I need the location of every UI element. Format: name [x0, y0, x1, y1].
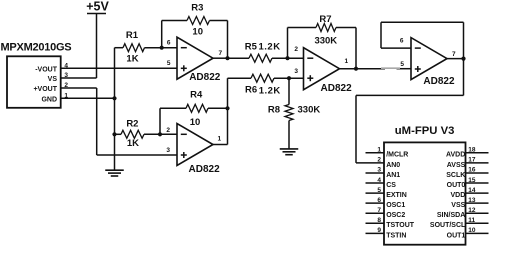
svg-text:VS: VS	[48, 76, 58, 83]
svg-text:CS: CS	[386, 182, 396, 189]
svg-text:1.2K: 1.2K	[259, 86, 281, 97]
svg-text:6: 6	[400, 37, 404, 44]
svg-text:SIN/SDA: SIN/SDA	[437, 212, 465, 219]
svg-text:330K: 330K	[298, 105, 321, 116]
svg-text:2: 2	[64, 82, 68, 89]
svg-text:1: 1	[218, 136, 222, 143]
svg-text:16: 16	[468, 167, 476, 174]
svg-text:R2: R2	[126, 118, 138, 129]
svg-text:2: 2	[294, 46, 298, 53]
svg-text:-VOUT: -VOUT	[35, 66, 58, 73]
svg-text:2: 2	[377, 157, 381, 164]
svg-text:uM-FPU V3: uM-FPU V3	[395, 125, 455, 137]
svg-text:6: 6	[167, 39, 171, 46]
svg-text:OSC2: OSC2	[386, 212, 405, 219]
svg-text:11: 11	[468, 217, 475, 224]
svg-text:7: 7	[452, 51, 456, 58]
svg-text:TSTOUT: TSTOUT	[386, 222, 415, 229]
svg-text:VDD: VDD	[451, 192, 466, 199]
svg-text:7: 7	[219, 50, 223, 57]
svg-text:AD822: AD822	[189, 164, 221, 175]
svg-text:+VOUT: +VOUT	[33, 86, 57, 93]
svg-text:3: 3	[377, 167, 381, 174]
svg-text:10: 10	[192, 27, 203, 38]
svg-text:MPXM2010GS: MPXM2010GS	[1, 42, 72, 54]
svg-text:SCLK: SCLK	[446, 172, 465, 179]
svg-text:12: 12	[468, 207, 476, 214]
svg-text:R1: R1	[126, 30, 139, 41]
svg-text:1.2K: 1.2K	[259, 42, 281, 53]
svg-text:7: 7	[377, 207, 381, 214]
svg-text:AVSS: AVSS	[447, 162, 466, 169]
svg-text:1: 1	[345, 58, 349, 65]
svg-text:5: 5	[400, 61, 404, 68]
svg-text:/MCLR: /MCLR	[386, 152, 408, 159]
svg-text:AD822: AD822	[423, 76, 455, 87]
svg-text:R4: R4	[190, 90, 203, 101]
svg-text:3: 3	[64, 72, 68, 79]
svg-text:4: 4	[377, 177, 381, 184]
svg-text:R7: R7	[319, 14, 331, 25]
svg-text:1K: 1K	[127, 138, 139, 149]
svg-text:AN1: AN1	[386, 172, 400, 179]
svg-text:3: 3	[294, 68, 298, 75]
svg-text:5: 5	[167, 60, 171, 67]
svg-text:GND: GND	[41, 96, 57, 103]
svg-text:R5: R5	[245, 42, 258, 53]
svg-text:R3: R3	[191, 3, 203, 14]
svg-text:EXTIN: EXTIN	[386, 192, 407, 199]
svg-text:2: 2	[166, 127, 170, 134]
svg-text:AN0: AN0	[386, 162, 400, 169]
svg-text:AD822: AD822	[321, 83, 353, 94]
svg-text:9: 9	[377, 227, 381, 234]
svg-text:13: 13	[468, 197, 476, 204]
svg-text:15: 15	[468, 177, 476, 184]
svg-text:14: 14	[468, 187, 476, 194]
svg-text:1: 1	[377, 147, 381, 154]
svg-text:18: 18	[468, 147, 476, 154]
svg-text:5: 5	[377, 187, 381, 194]
svg-text:R8: R8	[268, 105, 280, 116]
svg-text:OUT1: OUT1	[447, 232, 466, 239]
svg-text:OSC1: OSC1	[386, 202, 405, 209]
svg-text:10: 10	[190, 117, 201, 128]
svg-text:OUT0: OUT0	[447, 182, 466, 189]
svg-text:330K: 330K	[314, 35, 337, 46]
svg-text:+5V: +5V	[86, 0, 109, 14]
svg-text:3: 3	[166, 147, 170, 154]
svg-text:SOUT/SCL: SOUT/SCL	[430, 222, 466, 229]
svg-text:4: 4	[64, 62, 68, 69]
svg-text:17: 17	[468, 157, 476, 164]
svg-text:VSS: VSS	[451, 202, 465, 209]
svg-text:10: 10	[468, 227, 476, 234]
svg-text:1: 1	[64, 92, 68, 99]
svg-text:TSTIN: TSTIN	[386, 232, 406, 239]
svg-text:1K: 1K	[126, 54, 138, 65]
svg-text:6: 6	[377, 197, 381, 204]
svg-text:R6: R6	[245, 85, 257, 96]
svg-text:8: 8	[377, 217, 381, 224]
svg-text:AVDD: AVDD	[446, 152, 465, 159]
svg-text:AD822: AD822	[189, 72, 221, 83]
